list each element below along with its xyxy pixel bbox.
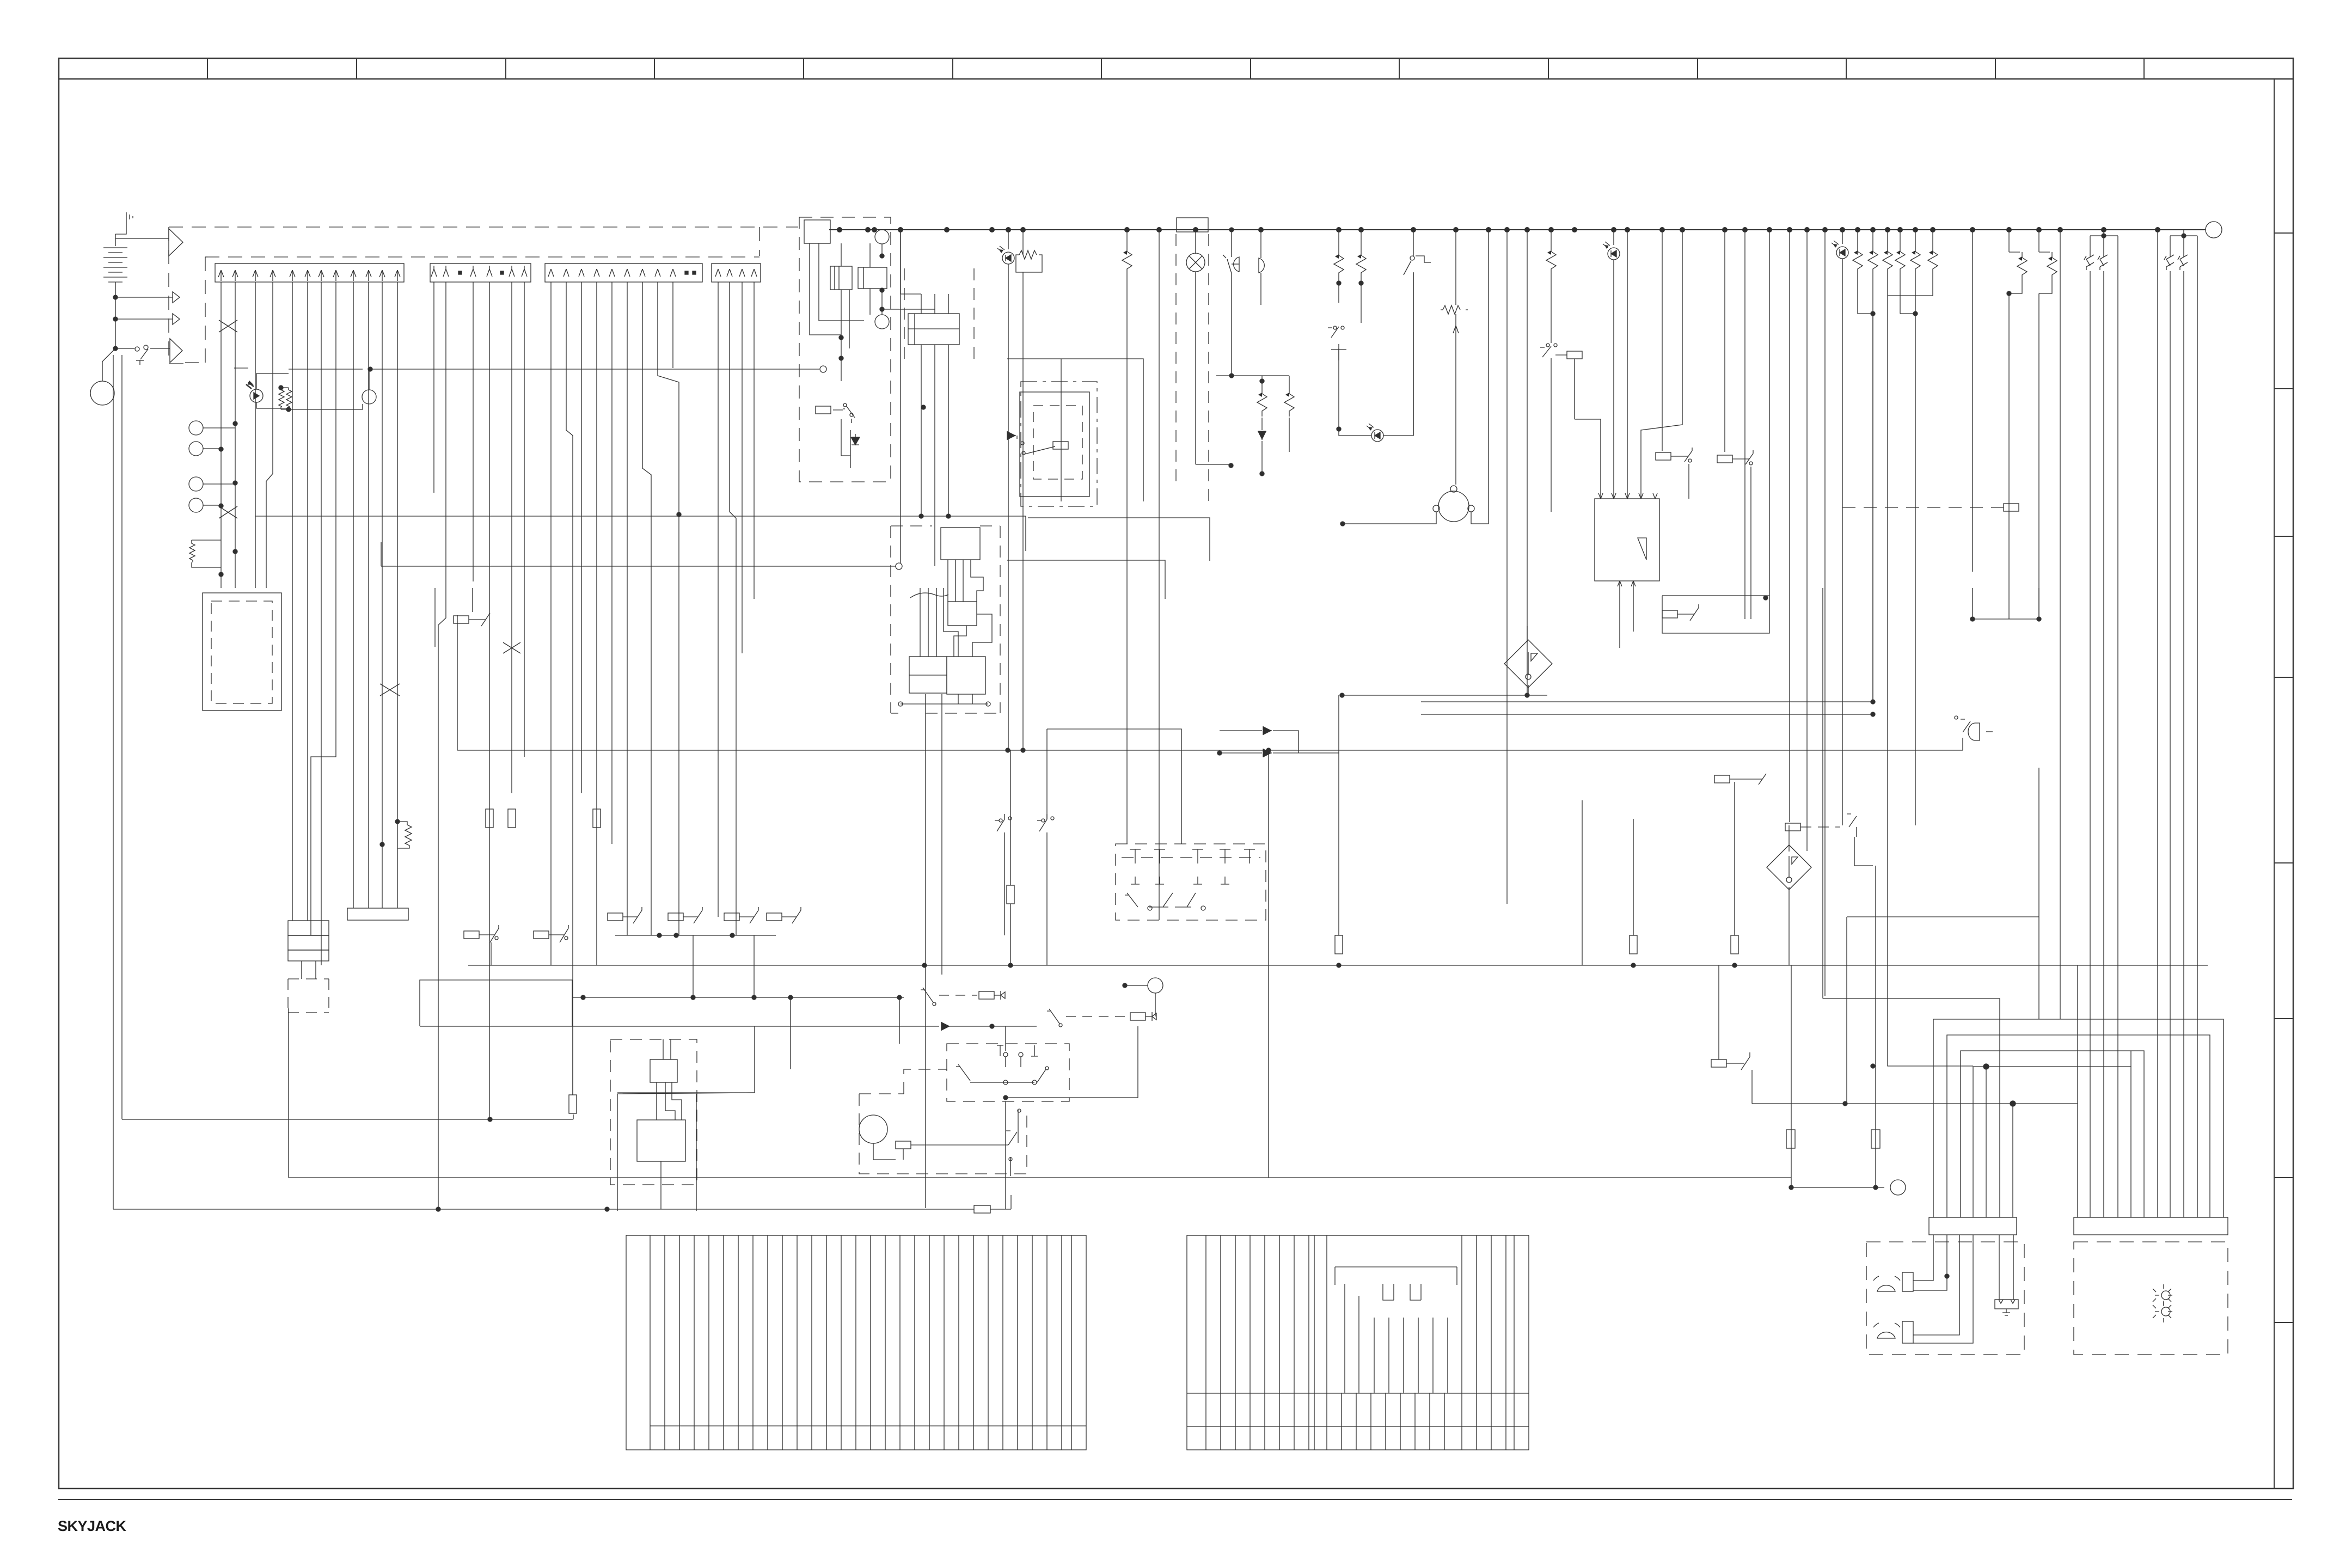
node (1680, 227, 1685, 232)
diode (941, 1022, 950, 1031)
node (144, 345, 148, 350)
wire (1004, 840, 1047, 965)
wire (572, 997, 573, 1095)
wire (956, 1064, 970, 1081)
timer switch (1413, 230, 1414, 256)
junction (1003, 1095, 1008, 1100)
box on bus (804, 220, 830, 243)
cable break on J2-5 (503, 642, 520, 653)
wire (192, 540, 221, 567)
relay coil (724, 913, 739, 921)
node (1003, 1052, 1008, 1057)
six zeners (1853, 230, 1938, 702)
junction (1337, 963, 1341, 967)
wire (752, 1235, 754, 1450)
wire (288, 979, 329, 1013)
junction (946, 514, 951, 518)
wire (1620, 581, 1633, 648)
wire (369, 369, 370, 390)
wire (596, 757, 597, 965)
suppressor (1122, 246, 1132, 274)
wire (1249, 1235, 1251, 1450)
wire (627, 282, 628, 935)
wire (1999, 1300, 2015, 1315)
wire (173, 292, 180, 303)
connector bars (1929, 1217, 2017, 1235)
resistor pair RP (279, 388, 284, 409)
wire (1461, 1235, 1462, 1450)
node (2161, 1291, 2170, 1300)
wire 2221 (113, 1209, 1011, 1210)
wire (1677, 604, 1699, 621)
lamp L1 (1195, 232, 1196, 254)
wire (1021, 1045, 1038, 1067)
wire (855, 1235, 856, 1450)
wire (203, 448, 221, 449)
box (637, 1120, 685, 1161)
junction (1789, 1185, 1793, 1190)
LED (997, 246, 1014, 264)
wire (1006, 1026, 1138, 1098)
wire (1159, 230, 1160, 920)
wire (948, 560, 983, 602)
junction (657, 933, 661, 938)
wire (1873, 1323, 1900, 1327)
wire (1146, 1012, 1156, 1021)
wire (782, 907, 801, 923)
wire (650, 1425, 1086, 1426)
junction (1732, 963, 1737, 967)
suppressor (2017, 252, 2027, 280)
junction (233, 549, 237, 554)
diode (1263, 749, 1272, 757)
box (347, 908, 408, 920)
junction (1359, 281, 1363, 285)
relay K2 (858, 267, 887, 289)
wire (754, 282, 755, 599)
wire to big triangle (115, 238, 169, 239)
node (1059, 1024, 1062, 1027)
junction (1123, 983, 1127, 988)
junction (1525, 693, 1529, 697)
wire (782, 1235, 783, 1450)
long mid wire (457, 750, 1963, 751)
fuse (593, 809, 601, 828)
junction (219, 504, 223, 508)
wire 1832 with dots (573, 997, 904, 998)
wire (1429, 1393, 1430, 1450)
fuses on verticals (486, 809, 493, 828)
dashed station boxes (1866, 1242, 2024, 1355)
pair of zeners mid (2009, 230, 2039, 252)
junction (1337, 281, 1341, 285)
junction (1983, 1064, 1989, 1069)
wire (381, 542, 382, 566)
wire (524, 282, 525, 757)
wire (1374, 1318, 1448, 1393)
wire (469, 613, 490, 626)
wire (150, 348, 170, 349)
wire (1155, 993, 1156, 1016)
junction (691, 995, 695, 1000)
wire 1277 with diamond sensor (1342, 695, 1547, 696)
suppressor (1895, 246, 1905, 274)
wire (205, 256, 759, 258)
wire 1137 (1973, 618, 2039, 620)
wire (1032, 1235, 1033, 1450)
wire (2060, 230, 2061, 1019)
circles (875, 230, 889, 244)
junction (1873, 1185, 1878, 1190)
junction (1340, 522, 1345, 526)
node (2161, 1307, 2170, 1316)
wire 1885 through diode (420, 1026, 939, 1027)
junction (1763, 596, 1768, 600)
horn H1 + switch (1223, 230, 1232, 376)
wire (1527, 230, 1528, 695)
wire (1383, 1284, 1394, 1300)
wire (841, 419, 850, 468)
wire (173, 314, 180, 324)
wire (810, 243, 864, 335)
wire (1016, 255, 1042, 272)
wire (970, 1082, 1034, 1083)
nested arcs (1933, 1019, 2224, 1217)
junction (2010, 1101, 2016, 1106)
junction (1260, 471, 1264, 476)
horn + switch at 1340 (1961, 719, 1970, 750)
bottom long bus 1773 (468, 965, 2208, 966)
wire (1671, 448, 1692, 462)
wire (1410, 1284, 1421, 1300)
wire 2163 (289, 1177, 1791, 1178)
wire (694, 1235, 695, 1450)
wire (1279, 1235, 1280, 1450)
wire (489, 282, 490, 1119)
wires below node down-left to circle M0 (102, 348, 115, 381)
wire (642, 282, 651, 935)
wire J1-4 (266, 282, 273, 588)
node (1526, 674, 1531, 679)
wire J1-3 (255, 282, 256, 588)
junction (395, 819, 400, 824)
junction (219, 447, 223, 451)
breaker (2084, 254, 2094, 270)
switch S0 + triangle T4 (115, 348, 134, 349)
breaker (2098, 254, 2108, 270)
node wire below (901, 703, 988, 705)
wire (988, 1235, 989, 1450)
LED D3 (1613, 230, 1614, 245)
box (650, 1059, 677, 1082)
wire (1476, 1235, 1477, 1450)
wire (1205, 1235, 1206, 1450)
wire (1028, 518, 1210, 561)
junction (380, 842, 384, 847)
wire pair J1-1/2 with break symbols (221, 282, 235, 588)
junction (677, 512, 681, 517)
wire (885, 1235, 886, 1450)
drops to controller (1627, 230, 1628, 499)
fuse (508, 809, 516, 828)
node (1201, 906, 1205, 910)
wire (1888, 296, 1973, 1066)
wire (972, 614, 992, 657)
wire (1404, 256, 1431, 275)
box (211, 601, 272, 703)
connector strip J2 (430, 264, 531, 282)
wire (1730, 774, 1766, 785)
diode to ground path (855, 434, 856, 442)
wire (672, 282, 673, 368)
wire (683, 907, 702, 923)
wire (1973, 588, 2039, 619)
wire (1875, 866, 1876, 1187)
valve component (1995, 1300, 2018, 1309)
wire (1961, 1051, 2144, 1217)
wire (1986, 1067, 1987, 1217)
wire (1999, 1235, 2000, 1300)
switch+dash coil 2 (1047, 1009, 1059, 1024)
junction (788, 995, 793, 1000)
junction (286, 407, 291, 412)
relay loop box right (1662, 596, 1769, 633)
wire (108, 272, 122, 273)
node (1453, 227, 1459, 232)
node (1410, 256, 1414, 260)
wires around LED (256, 373, 289, 389)
wire (2170, 235, 2197, 236)
junction (1008, 963, 1013, 967)
wire (1491, 1235, 1492, 1450)
wire (973, 1235, 974, 1450)
wire (1854, 837, 1873, 866)
wire (1641, 230, 1682, 499)
switch row coil at left (454, 616, 469, 623)
wire (1007, 560, 1165, 599)
junction (921, 405, 926, 409)
wire (136, 349, 148, 365)
node (1767, 227, 1772, 232)
wire (1122, 857, 1260, 858)
wire (835, 266, 839, 290)
node (2006, 227, 2012, 232)
wire (1858, 274, 1873, 702)
wire W948 (255, 516, 1026, 517)
node (90, 381, 114, 405)
wire (1662, 230, 1663, 451)
wire (203, 427, 235, 428)
wire (841, 290, 849, 381)
wire (2077, 965, 2078, 1104)
wire (596, 282, 597, 757)
node (1009, 1157, 1012, 1161)
wire (1847, 814, 1857, 837)
junction (1843, 1101, 1847, 1106)
junction (1266, 748, 1271, 752)
node (1913, 227, 1918, 232)
wire (1789, 856, 1798, 878)
wire (248, 381, 253, 384)
coil + switch lower (816, 406, 831, 414)
wire (2170, 271, 2184, 1217)
box (947, 1044, 1069, 1101)
triangle T1 (169, 229, 183, 256)
wire (921, 294, 948, 314)
wire (1528, 685, 1529, 695)
stair wires (920, 588, 958, 657)
wire (944, 1235, 945, 1450)
node (189, 477, 203, 491)
pump symbols (1873, 1272, 1913, 1291)
coil K4 + switch (1724, 230, 1725, 452)
junction (839, 335, 843, 340)
wire (1872, 314, 1873, 702)
fuse (1335, 935, 1343, 954)
node (1438, 491, 1469, 522)
wire (1216, 375, 1289, 376)
LED D1 (250, 389, 263, 402)
wire/triangle T3 (115, 318, 173, 320)
wire 1741 with dots (615, 935, 776, 936)
node (843, 403, 847, 407)
two long verticals down page (113, 355, 114, 1209)
node (1333, 326, 1337, 329)
wire (658, 282, 679, 935)
wire (1010, 750, 1011, 965)
LED (1603, 242, 1620, 260)
wire (170, 339, 182, 363)
wire (929, 1235, 930, 1450)
suppressor (1284, 388, 1294, 416)
wire (1441, 309, 1468, 310)
wire (438, 282, 446, 1208)
junction (279, 385, 283, 390)
fuse (1630, 935, 1637, 954)
node (1786, 877, 1792, 883)
wire (286, 388, 292, 409)
coil K3 + switch (1656, 452, 1671, 460)
wires J3 down (550, 282, 552, 965)
wire (754, 1026, 755, 1093)
wire (566, 282, 573, 1095)
wire (1125, 985, 1148, 986)
box (947, 657, 985, 694)
wire (573, 1114, 574, 1119)
junction (1970, 617, 1975, 621)
wire (1385, 1393, 1386, 1450)
node (1890, 1180, 1906, 1195)
wire (1273, 752, 1339, 754)
node (565, 936, 568, 940)
wire (491, 942, 492, 965)
cable break X3 (380, 684, 400, 696)
wire (1338, 348, 1339, 429)
wire (921, 345, 948, 403)
wire (1575, 419, 1601, 499)
wire (2012, 1104, 2013, 1217)
junction (1871, 311, 1875, 316)
svg-text:SKYJACK: SKYJACK (58, 1518, 127, 1534)
wire (660, 1161, 661, 1209)
wire (2038, 293, 2039, 619)
junction (880, 254, 884, 258)
wire (1007, 359, 1143, 501)
box (941, 528, 980, 560)
wires J4 down (718, 282, 719, 917)
box (288, 935, 329, 950)
wire (611, 282, 612, 844)
wire (1262, 376, 1289, 452)
wire (1187, 1426, 1529, 1427)
wire (1527, 626, 1528, 642)
junction (880, 288, 884, 292)
junction (1871, 700, 1875, 704)
node (933, 1002, 936, 1006)
wire (289, 750, 1269, 1178)
wire 2007 (617, 1092, 755, 1093)
junction (880, 307, 884, 311)
wire (623, 907, 642, 923)
junction (1337, 427, 1341, 431)
wire (2008, 316, 2010, 619)
wire (203, 505, 221, 506)
wire (289, 404, 363, 409)
W676 end node (820, 366, 826, 372)
wire (103, 267, 127, 268)
suppressor (1546, 246, 1556, 274)
relay coil (1053, 442, 1068, 449)
node (999, 819, 1002, 822)
drops from bar1 into box (1913, 1235, 1933, 1281)
wire (1017, 1235, 1018, 1450)
fuse (569, 1095, 577, 1113)
wire J1-9/10 to lower connector (353, 282, 369, 908)
small top rect (948, 602, 977, 626)
coil + switch feeding bar area (1711, 1059, 1726, 1067)
wire (891, 526, 1000, 713)
resistor + motor (1455, 230, 1456, 305)
ground (115, 212, 133, 234)
wire (1913, 1235, 1947, 1290)
terminal circle (2206, 222, 2222, 238)
junction (2182, 234, 2186, 238)
wire (1888, 274, 1915, 314)
connector strip J1 (215, 264, 404, 282)
wire (900, 230, 901, 563)
wire (1341, 1393, 1342, 1450)
wire (1973, 1067, 2131, 1217)
node (1019, 1052, 1023, 1057)
junction (1229, 463, 1233, 468)
wire (901, 230, 921, 294)
node (1524, 227, 1530, 232)
wire (1846, 917, 1847, 1104)
wire (1750, 467, 1751, 619)
wire (1551, 274, 1552, 343)
wire (1019, 250, 1037, 259)
box (626, 1235, 1086, 1450)
wire (1022, 230, 1024, 255)
wire (1187, 1393, 1529, 1394)
relay coil (534, 931, 549, 939)
box (1767, 845, 1811, 890)
junction (730, 933, 734, 938)
wire (1551, 358, 1575, 512)
wire (1010, 1195, 1012, 1209)
junction (2037, 617, 2041, 621)
stubs down from 1741/1832 wires (693, 935, 754, 997)
